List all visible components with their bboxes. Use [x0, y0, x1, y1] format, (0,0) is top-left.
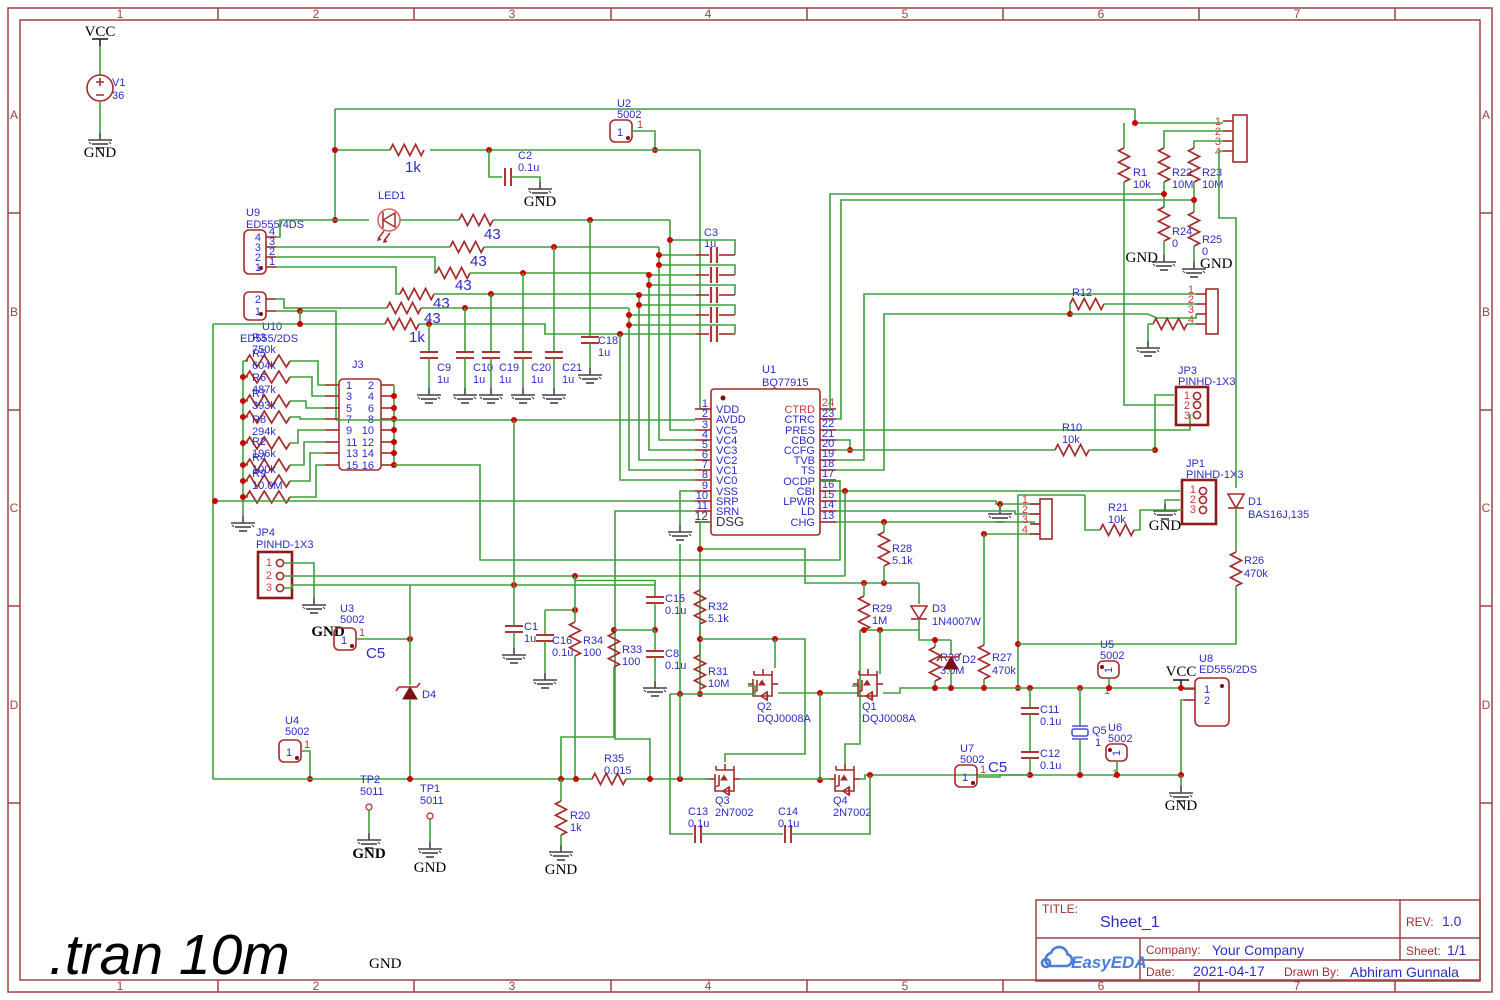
ground	[1182, 262, 1206, 277]
svg-text:1: 1	[255, 306, 261, 318]
wire U9 pin4 elbow to row1	[276, 220, 335, 237]
junction	[1114, 772, 1120, 778]
ground	[479, 388, 503, 403]
wire Q4 source row to C12 bus	[860, 775, 1181, 779]
ground	[418, 842, 442, 857]
junction	[981, 685, 987, 691]
wire row5 from U10 pin2	[276, 299, 387, 308]
junction	[391, 416, 397, 422]
svg-text:Abhiram Gunnala: Abhiram Gunnala	[1350, 964, 1459, 980]
wire pack+ vertical x335	[334, 109, 336, 220]
svg-text:5.1k: 5.1k	[708, 613, 729, 625]
svg-text:GND: GND	[352, 846, 386, 862]
EasyEDA logo	[1042, 947, 1147, 972]
junction	[656, 252, 662, 258]
junction	[391, 439, 397, 445]
svg-text:3: 3	[509, 979, 516, 993]
svg-text:TP1: TP1	[420, 783, 440, 795]
svg-text:C20: C20	[531, 362, 551, 374]
svg-text:Your Company: Your Company	[1212, 942, 1304, 958]
junction	[867, 772, 873, 778]
wire CHG row	[836, 522, 1040, 524]
svg-text:R29: R29	[872, 603, 892, 615]
test point TP2 5011	[352, 774, 386, 862]
svg-text:0.1u: 0.1u	[688, 818, 709, 830]
resistor R8 294k	[243, 442, 248, 444]
pad U6 5002	[1106, 722, 1132, 780]
svg-text:100: 100	[622, 656, 640, 668]
svg-text:Q2: Q2	[757, 701, 772, 713]
title block	[1036, 900, 1480, 981]
wire CBO jog	[836, 440, 850, 450]
zener D2	[944, 657, 958, 669]
svg-text:D: D	[10, 698, 19, 712]
svg-text:R24: R24	[1172, 226, 1192, 238]
test point TP1 5011	[414, 783, 447, 876]
junction	[646, 272, 652, 278]
resistor R20 1k	[560, 779, 562, 801]
wire U7 pin to bus	[977, 775, 1030, 777]
wire battery top net y109	[335, 108, 1135, 110]
resistor 43 row3	[436, 268, 470, 279]
junction	[1027, 772, 1033, 778]
svg-text:R2: R2	[252, 436, 266, 448]
resistor R9 10.0M	[243, 496, 248, 498]
svg-text:J3: J3	[352, 359, 364, 371]
junction	[511, 582, 517, 588]
junction	[1077, 685, 1083, 691]
voltage source V1 36	[87, 75, 125, 102]
svg-text:1u: 1u	[473, 374, 485, 386]
svg-text:VCC: VCC	[85, 24, 116, 40]
svg-text:R33: R33	[622, 644, 642, 656]
svg-text:1u: 1u	[499, 374, 511, 386]
header JP3 PINHD-1X3	[1176, 365, 1235, 425]
svg-text:Drawn By:: Drawn By:	[1284, 965, 1339, 979]
svg-text:7: 7	[1294, 7, 1301, 21]
svg-text:5011: 5011	[420, 795, 444, 807]
wire C13 C14 loop	[670, 694, 693, 834]
junction	[697, 546, 703, 552]
wire JP4 pin2 CBI row	[284, 575, 845, 577]
svg-text:5002: 5002	[285, 726, 309, 738]
svg-text:R1: R1	[1133, 167, 1147, 179]
wire main pack- bus	[213, 778, 592, 780]
transistor Q1 DQJ0008A	[853, 669, 883, 700]
svg-text:1: 1	[266, 557, 272, 569]
svg-text:R35: R35	[604, 753, 624, 765]
junction	[558, 776, 564, 782]
junction	[636, 302, 642, 308]
svg-text:C10: C10	[473, 362, 493, 374]
svg-text:1.0: 1.0	[1442, 913, 1462, 929]
svg-text:C8: C8	[665, 648, 679, 660]
svg-text:1: 1	[1103, 667, 1115, 673]
svg-text:Sheet:: Sheet:	[1406, 944, 1441, 958]
junction	[1027, 685, 1033, 691]
svg-text:23: 23	[822, 408, 834, 420]
capacitor C1 1u	[505, 626, 523, 632]
junction	[1077, 772, 1083, 778]
resistor R6 487k	[243, 400, 248, 402]
svg-text:2: 2	[313, 7, 320, 21]
svg-text:2: 2	[255, 294, 261, 306]
wire TS riser to pack pin3	[836, 314, 1070, 470]
svg-text:GND: GND	[414, 860, 447, 876]
junction	[861, 627, 867, 633]
resistor 43 row5	[387, 303, 421, 314]
wire VCC row y150	[335, 149, 390, 151]
svg-text:10: 10	[362, 425, 374, 437]
svg-text:R9: R9	[252, 468, 266, 480]
ground	[453, 388, 477, 403]
svg-text:D: D	[1482, 698, 1491, 712]
junction	[240, 494, 246, 500]
svg-text:10.0M: 10.0M	[252, 480, 283, 492]
svg-text:1k: 1k	[405, 159, 421, 176]
svg-text:3: 3	[509, 7, 516, 21]
junction	[617, 331, 623, 337]
junction	[881, 580, 887, 586]
capacitor C16 0.1u	[544, 610, 546, 635]
wire row1 to LED	[335, 219, 369, 221]
ground	[1152, 255, 1176, 270]
battery tap connector right mid	[1188, 284, 1218, 334]
wire OCDP stub	[820, 480, 840, 482]
ground	[302, 598, 326, 613]
wire Q4 gate	[820, 778, 830, 780]
svg-text:R10: R10	[1062, 422, 1082, 434]
junction	[948, 685, 954, 691]
svg-text:A: A	[1482, 108, 1490, 122]
IC U1 BQ77915	[711, 364, 820, 535]
wire VSS drop to bus	[679, 694, 681, 779]
junction	[817, 777, 823, 783]
capacitor C19 1u	[490, 294, 492, 352]
resistor 43 row1	[459, 215, 493, 226]
svg-text:4: 4	[1022, 524, 1028, 536]
VCC power symbol top-left	[85, 24, 116, 46]
svg-text:1u: 1u	[562, 374, 574, 386]
svg-text:ED555/2DS: ED555/2DS	[1199, 664, 1257, 676]
svg-text:1: 1	[304, 739, 310, 751]
svg-text:R8: R8	[252, 414, 266, 426]
svg-text:BAS16J,135: BAS16J,135	[1248, 509, 1309, 521]
svg-text:DQJ0008A: DQJ0008A	[757, 713, 811, 725]
wire CTRD riser	[830, 194, 1165, 409]
resistor R26 470k	[1231, 552, 1242, 586]
junction	[332, 147, 338, 153]
ground	[988, 507, 1012, 522]
frame column numbers	[117, 7, 1301, 993]
svg-text:1: 1	[359, 627, 365, 639]
ground	[549, 845, 573, 860]
svg-text:CTRD: CTRD	[784, 404, 815, 416]
svg-text:5: 5	[902, 979, 909, 993]
svg-text:D4: D4	[422, 689, 436, 701]
ground at U8	[1180, 775, 1182, 786]
wire U4 pin to bus	[301, 751, 310, 779]
svg-text:1: 1	[1095, 737, 1101, 749]
junction	[772, 636, 778, 642]
svg-text:PINHD-1X3: PINHD-1X3	[256, 539, 313, 551]
junction	[520, 270, 526, 276]
junction	[297, 321, 303, 327]
junction	[407, 636, 413, 642]
svg-text:JP4: JP4	[256, 527, 275, 539]
junction	[1015, 685, 1021, 691]
transistor Q4 2N7002	[830, 764, 860, 795]
svg-text:B: B	[10, 305, 18, 319]
junction	[297, 308, 303, 314]
header J3	[339, 359, 381, 470]
capacitor stack C3	[704, 227, 718, 250]
svg-text:2021-04-17: 2021-04-17	[1193, 963, 1265, 979]
wire J3 pin16 to OCDP	[394, 465, 840, 560]
svg-text:REV:: REV:	[1406, 915, 1434, 929]
wire R33 top hook	[614, 629, 655, 631]
junction	[1152, 447, 1158, 453]
junction	[1015, 641, 1021, 647]
svg-text:R27: R27	[992, 652, 1012, 664]
junction	[240, 462, 246, 468]
wire LPWR row	[836, 501, 1040, 504]
junction	[626, 312, 632, 318]
wire pump mid row to Q4 drain	[845, 630, 860, 765]
svg-text:3: 3	[1190, 504, 1196, 516]
wire DSG pump top row	[700, 549, 919, 583]
svg-text:43: 43	[484, 226, 501, 243]
wire D4 node vertical	[409, 585, 411, 685]
svg-text:1u: 1u	[437, 374, 449, 386]
svg-text:12: 12	[695, 509, 709, 523]
wire C2 to GND	[511, 177, 540, 182]
resistor pin4 to GND	[1153, 319, 1187, 330]
resistor R29 1M	[863, 583, 865, 596]
ground	[533, 673, 557, 688]
svg-text:3: 3	[346, 391, 352, 403]
svg-text:R20: R20	[570, 810, 590, 822]
svg-text:1: 1	[117, 7, 124, 21]
junction	[647, 776, 653, 782]
svg-text:1: 1	[980, 764, 986, 776]
junction	[572, 573, 578, 579]
svg-text:43: 43	[470, 253, 487, 270]
svg-text:R28: R28	[892, 543, 912, 555]
svg-text:Company:: Company:	[1146, 943, 1201, 957]
svg-text:Q3: Q3	[715, 795, 730, 807]
transistor Q3 2N7002	[710, 764, 740, 795]
svg-text:Q4: Q4	[833, 795, 848, 807]
junction	[626, 322, 632, 328]
capacitor C21 1u	[553, 247, 555, 352]
junction	[1161, 191, 1167, 197]
resistor R2 196k	[243, 464, 248, 466]
svg-text:GND: GND	[369, 956, 402, 972]
resistor 1k top row	[390, 145, 424, 156]
svg-text:.tran 10m: .tran 10m	[49, 923, 290, 987]
resistor R4 100k	[243, 480, 248, 482]
resistor R21 10k	[1085, 495, 1100, 530]
resistor R34 100	[574, 576, 576, 622]
svg-text:R4: R4	[252, 452, 266, 464]
svg-text:13: 13	[822, 510, 834, 522]
junction	[667, 237, 673, 243]
svg-text:DQJ0008A: DQJ0008A	[862, 713, 916, 725]
svg-text:R21: R21	[1108, 502, 1128, 514]
resistor R32 5.1k	[695, 590, 706, 624]
svg-text:0: 0	[1172, 238, 1178, 250]
resistor R31 10M	[695, 655, 706, 689]
wire staircase VC0	[620, 334, 695, 480]
junction	[877, 627, 883, 633]
junction	[462, 305, 468, 311]
svg-text:TITLE:: TITLE:	[1042, 902, 1078, 916]
wire pin4 row from R27 riser	[984, 533, 1040, 535]
junction	[486, 147, 492, 153]
wire Q2 source drop	[819, 693, 821, 780]
pad U5 5002	[1098, 639, 1124, 697]
svg-text:D3: D3	[932, 603, 946, 615]
svg-text:1/1: 1/1	[1447, 942, 1467, 958]
svg-text:R7: R7	[252, 388, 266, 400]
svg-text:C1: C1	[524, 621, 538, 633]
svg-text:10k: 10k	[1133, 179, 1151, 191]
cell model U9 ED555/4DS	[244, 207, 304, 274]
svg-text:3: 3	[1184, 410, 1190, 422]
svg-text:D2: D2	[962, 654, 976, 666]
wire JP3 pin1 to R10	[1155, 395, 1174, 450]
wire LD row	[836, 511, 1040, 514]
wire Q1 drain	[879, 630, 881, 674]
wire R1 bottom to JP3 pin2	[1124, 182, 1174, 405]
pad U3 5002	[334, 603, 365, 650]
wire staircase VC4	[659, 247, 695, 440]
svg-text:0.1u: 0.1u	[778, 818, 799, 830]
wire Q2 drain	[774, 639, 776, 668]
svg-text:GND: GND	[545, 862, 578, 878]
capacitor C20 1u	[522, 273, 524, 352]
svg-text:4: 4	[705, 7, 712, 21]
svg-text:Q5: Q5	[1092, 725, 1107, 737]
resistor R23 10M	[1194, 141, 1223, 148]
svg-text:R5: R5	[252, 348, 266, 360]
svg-text:C5: C5	[366, 645, 385, 662]
svg-text:10k: 10k	[1108, 514, 1126, 526]
transistor Q2 DQJ0008A	[748, 669, 778, 700]
svg-text:0.1u: 0.1u	[1040, 760, 1061, 772]
junction	[391, 405, 397, 411]
svg-text:R31: R31	[708, 666, 728, 678]
svg-text:10M: 10M	[708, 678, 729, 690]
wire R26 return	[1018, 586, 1236, 644]
svg-text:0.1u: 0.1u	[665, 605, 686, 617]
wire VCC to V1	[99, 46, 101, 75]
svg-text:393k: 393k	[252, 400, 276, 412]
junction	[573, 776, 579, 782]
C3 right hook wires	[629, 240, 735, 334]
svg-text:1: 1	[341, 635, 347, 647]
junction	[932, 685, 938, 691]
svg-text:Q1: Q1	[862, 701, 877, 713]
resistor ladder left bus	[242, 361, 244, 516]
svg-text:C9: C9	[437, 362, 451, 374]
junction	[997, 501, 1003, 507]
resistor 1k row6	[385, 319, 419, 330]
sense connector lower right	[1022, 494, 1052, 539]
zener D4	[403, 687, 417, 699]
svg-text:1: 1	[1111, 750, 1123, 756]
resistor R33 100	[613, 630, 615, 633]
svg-text:DSG: DSG	[716, 514, 744, 529]
svg-text:1: 1	[637, 119, 643, 131]
wire VSS net down	[679, 544, 681, 694]
junction	[212, 498, 218, 504]
svg-text:1: 1	[617, 127, 623, 139]
svg-text:4: 4	[368, 391, 374, 403]
wire row3 from U9 pin2	[276, 257, 436, 273]
svg-text:2N7002: 2N7002	[833, 807, 872, 819]
svg-text:10M: 10M	[1202, 179, 1223, 191]
svg-text:15: 15	[346, 460, 358, 472]
resistor 43 row4	[400, 289, 434, 300]
wire JP4 pin3 AVDD row	[284, 585, 655, 588]
svg-text:R34: R34	[583, 635, 603, 647]
svg-text:GND: GND	[1126, 250, 1159, 266]
wire gate bus to Q2	[670, 686, 755, 694]
svg-text:1k: 1k	[409, 329, 425, 346]
junction	[697, 636, 703, 642]
svg-text:Sheet_1: Sheet_1	[1100, 914, 1160, 931]
wire U3 pin to D4 node	[356, 638, 410, 640]
svg-text:100: 100	[583, 647, 601, 659]
svg-text:R3: R3	[252, 332, 266, 344]
svg-text:C13: C13	[688, 806, 708, 818]
wire bus into Q3 gate	[706, 778, 710, 780]
junction	[1106, 685, 1112, 691]
svg-text:C14: C14	[778, 806, 798, 818]
wire SRN route	[615, 511, 695, 780]
svg-text:1u: 1u	[524, 633, 536, 645]
wire CBI drop to JP4 pin2 row	[844, 491, 846, 576]
svg-text:R12: R12	[1072, 287, 1092, 299]
junction	[391, 450, 397, 456]
svg-text:1u: 1u	[598, 347, 610, 359]
junction	[932, 637, 938, 643]
ground	[1136, 341, 1160, 356]
resistor 43 row2	[450, 242, 484, 253]
pad U2 5002	[610, 98, 643, 142]
junction	[1178, 685, 1184, 691]
junction	[240, 374, 246, 380]
ground	[1169, 786, 1193, 801]
header JP1 PINHD-1X3	[1182, 458, 1243, 524]
wire Q3 source row	[740, 778, 820, 780]
svg-text:5002: 5002	[340, 614, 364, 626]
svg-text:C: C	[1482, 501, 1491, 515]
wire JP1 pin2 to GND	[1165, 500, 1180, 504]
wire DSG drop	[700, 522, 711, 694]
resistor R27 470k	[983, 534, 985, 645]
junction	[240, 414, 246, 420]
junction	[652, 627, 658, 633]
svg-text:C12: C12	[1040, 748, 1060, 760]
wire D2 R30 top hooks	[919, 630, 951, 640]
pad U8 ED555/2DS	[1184, 653, 1257, 726]
svg-text:5: 5	[902, 7, 909, 21]
svg-text:1M: 1M	[872, 615, 887, 627]
wire AVDD drop to C1	[513, 420, 515, 585]
